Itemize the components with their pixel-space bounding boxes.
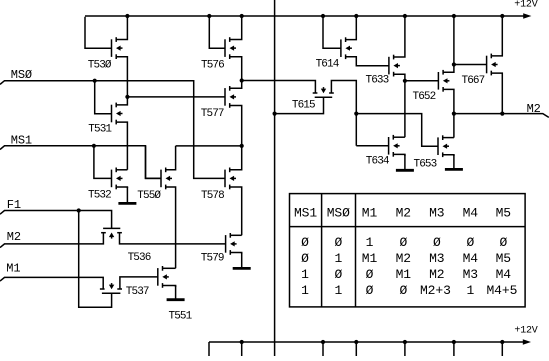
- node T577.s/T550.d/T578.d: [240, 144, 244, 148]
- wire T530 source down to node: [116, 57, 127, 97]
- transistor T536: [101, 228, 122, 238]
- transistor T577: [225, 86, 236, 108]
- junction on +12V rail x=127.4: [125, 14, 129, 18]
- svg-text:Ø: Ø: [399, 283, 407, 298]
- svg-text:T53Ø: T53Ø: [88, 59, 112, 71]
- svg-text:M1: M1: [362, 205, 378, 220]
- transistor T652: [438, 70, 449, 92]
- svg-text:Ø: Ø: [334, 267, 342, 282]
- transistor T550: [161, 168, 172, 190]
- transistor T531: [112, 103, 123, 125]
- svg-text:Ø: Ø: [301, 235, 309, 250]
- node T633.s/T652.g/T634.d: [403, 79, 407, 83]
- svg-text:Ø: Ø: [499, 235, 507, 250]
- svg-text:Ø: Ø: [366, 283, 374, 298]
- wire T532 source arm: [116, 187, 127, 188]
- transistor T532: [112, 168, 123, 190]
- wire T532 gate to MS1: [94, 146, 112, 179]
- svg-text:M3: M3: [429, 205, 444, 220]
- wire stub below bottom rail x=241.7: [241, 342, 243, 356]
- wire stub below bottom rail x=356.3: [355, 342, 357, 356]
- wire T615 gate to bus: [275, 97, 324, 113]
- svg-text:T537: T537: [126, 286, 149, 298]
- wire node to T652 gate: [405, 80, 439, 82]
- svg-text:T634: T634: [366, 156, 390, 168]
- svg-text:MSØ: MSØ: [11, 68, 32, 82]
- transistor T634: [389, 135, 400, 157]
- junction on +12V rail x=323.0: [321, 14, 325, 18]
- svg-text:M2: M2: [396, 251, 411, 266]
- wire stub below bottom rail x=323.0: [322, 342, 324, 356]
- wire T576 gate to +12V: [209, 16, 225, 48]
- node F1/T537 gate: [77, 208, 81, 212]
- svg-text:1: 1: [366, 235, 374, 250]
- svg-text:M1: M1: [362, 251, 378, 266]
- wire T653 source arm: [443, 155, 454, 156]
- junction on bottom rail x=241.7: [240, 340, 244, 344]
- wire M2 input to T536 left: [0, 233, 103, 248]
- svg-text:M2: M2: [527, 102, 541, 116]
- svg-text:Ø: Ø: [334, 235, 342, 250]
- table data row 2: [301, 251, 511, 266]
- wire T530 gate to +12V: [85, 17, 112, 49]
- transistor T578: [225, 168, 236, 190]
- wire node T577/T550/T578: [176, 145, 242, 147]
- junction on +12V rail x=356.3: [354, 14, 358, 18]
- wire T576 source to node: [230, 57, 242, 81]
- junction on bottom rail x=404.9: [403, 340, 407, 344]
- wire T577 source down to node: [230, 106, 242, 146]
- svg-text:T579: T579: [201, 253, 224, 265]
- svg-text:F1: F1: [7, 198, 21, 212]
- node bus/T615 gate: [273, 112, 277, 116]
- transistor T667: [487, 54, 498, 76]
- node T530.s/T531.d: [125, 95, 129, 99]
- wire M1 to T537 left: [0, 277, 103, 289]
- svg-text:T633: T633: [366, 75, 389, 87]
- transistor T615: [313, 87, 334, 97]
- wire T576 drain to +12V: [230, 16, 242, 40]
- svg-text:T667: T667: [462, 75, 485, 87]
- wire T634 gate from T615 column: [356, 145, 388, 147]
- svg-text:Ø: Ø: [433, 235, 441, 250]
- wire node to T615 left: [242, 81, 316, 94]
- junction on +12V rail x=453.9: [452, 14, 456, 18]
- svg-text:T577: T577: [201, 108, 224, 120]
- transistor T579: [226, 233, 237, 255]
- wire T579 drain arm: [230, 234, 241, 236]
- truth table: [290, 194, 526, 307]
- svg-text:1: 1: [334, 251, 342, 266]
- wire T577 drain to node: [230, 81, 242, 89]
- wire T633 source to node: [394, 74, 405, 81]
- transistor T614: [341, 37, 352, 59]
- svg-text:1: 1: [301, 267, 309, 282]
- +12V rail (bottom): [209, 339, 531, 344]
- wire T550 gate to MS1: [146, 146, 162, 179]
- wire T667 gate to T652 drain node: [454, 64, 487, 66]
- svg-text:T536: T536: [128, 252, 151, 264]
- wire T532 drain arm: [116, 169, 127, 171]
- junction on bottom rail x=502.3: [500, 340, 504, 344]
- wire node down to T634 drain: [404, 81, 406, 137]
- vertical bus wire: [274, 0, 276, 356]
- transistor T551: [158, 266, 169, 288]
- svg-text:1: 1: [334, 283, 342, 298]
- wire M2 output: [454, 114, 549, 118]
- svg-text:M1: M1: [6, 262, 20, 276]
- svg-text:Ø: Ø: [301, 251, 309, 266]
- junction on +12V rail x=404.9: [403, 14, 407, 18]
- node T576.s/T577.d/T615: [240, 78, 244, 82]
- svg-text:1: 1: [466, 283, 474, 298]
- ground under T653: [445, 155, 463, 170]
- ground under T579: [233, 253, 251, 269]
- transistor T530: [112, 37, 123, 59]
- svg-text:M2: M2: [429, 267, 444, 282]
- wire T531 drain to node: [116, 97, 127, 105]
- svg-text:M2+3: M2+3: [420, 283, 451, 298]
- table data row 3: [301, 267, 511, 282]
- wire T652 drain to +12V: [443, 16, 454, 72]
- wire T634 source arm: [393, 154, 405, 156]
- wire stub below bottom rail x=453.9: [453, 342, 455, 356]
- transistor T537: [100, 283, 122, 293]
- wire T551 source arm: [163, 286, 176, 288]
- svg-text:M4: M4: [463, 205, 479, 220]
- table data row 4: [301, 283, 517, 298]
- node T652.s/M2/T653.d: [452, 112, 456, 116]
- svg-text:M3: M3: [429, 251, 444, 266]
- svg-text:M2: M2: [7, 230, 21, 244]
- svg-text:+12V: +12V: [514, 0, 537, 10]
- svg-text:T652: T652: [413, 91, 436, 103]
- junction on +12V rail x=209.3: [207, 14, 211, 18]
- wire T536 right to T579 gate: [120, 233, 226, 244]
- transistor T576: [225, 37, 236, 59]
- wire T653 gate from node: [356, 114, 438, 147]
- wire T615 right to T634 column: [331, 81, 356, 146]
- wire node to T577 gate: [127, 96, 225, 98]
- +12V rail (top): [85, 13, 531, 18]
- wire T578 source to T579 drain: [230, 187, 242, 235]
- svg-text:MS1: MS1: [11, 133, 32, 147]
- svg-text:Ø: Ø: [466, 235, 474, 250]
- wire T652 source to M2 node and T653 drain: [443, 89, 454, 137]
- wire F1 branch to T537 gate: [79, 211, 112, 308]
- junction on bottom rail x=453.9: [452, 340, 456, 344]
- svg-text:T532: T532: [88, 190, 111, 202]
- wire stub below bottom rail x=404.9: [404, 342, 406, 356]
- svg-text:M5: M5: [496, 251, 511, 266]
- node T652.d/T667.g: [452, 62, 456, 66]
- svg-text:M5: M5: [496, 205, 511, 220]
- svg-text:T531: T531: [88, 124, 112, 136]
- ground under T532: [118, 187, 136, 203]
- junction on bottom rail x=323.0: [321, 340, 325, 344]
- node T667.s/M2: [500, 112, 504, 116]
- wire MS0 input to T578 gate: [0, 81, 225, 179]
- svg-text:MSØ: MSØ: [327, 205, 350, 220]
- svg-text:+12V: +12V: [514, 326, 537, 337]
- ground under T551: [167, 286, 185, 300]
- wire stub below bottom rail x=502.3: [501, 342, 503, 356]
- transistor T653: [438, 135, 449, 157]
- svg-text:T615: T615: [292, 99, 315, 111]
- node MS0/T531 gate: [93, 79, 97, 83]
- wire MS1 input to T550 gate: [0, 146, 161, 179]
- node MS1/T532 gate: [92, 144, 96, 148]
- wire T537 right to T551 gate: [120, 277, 158, 289]
- wire T530 drain to +12V: [116, 16, 127, 40]
- svg-text:T578: T578: [201, 190, 224, 202]
- svg-text:T55Ø: T55Ø: [137, 190, 161, 202]
- svg-text:Ø: Ø: [366, 267, 374, 282]
- svg-text:1: 1: [301, 283, 309, 298]
- wire F1 to T536 gate: [0, 211, 112, 229]
- svg-text:MS1: MS1: [294, 205, 317, 220]
- transistor T633: [389, 55, 400, 77]
- table header row: [294, 205, 511, 220]
- svg-text:Ø: Ø: [399, 235, 407, 250]
- wire stub below bottom rail x=209: [208, 342, 210, 356]
- svg-text:M2: M2: [396, 205, 411, 220]
- table data row 1: [301, 235, 507, 250]
- wire T633 drain to +12V: [394, 16, 405, 57]
- wire T614 source to T633 gate: [346, 57, 389, 66]
- wire T578 drain to node: [230, 146, 242, 170]
- wire T667 source to M2 wire: [491, 73, 502, 114]
- junction on +12V rail x=241.7: [240, 14, 244, 18]
- wire T634 drain arm: [393, 136, 405, 138]
- svg-text:T614: T614: [316, 58, 340, 70]
- svg-text:T653: T653: [414, 158, 437, 170]
- wire T614 gate to +12V: [323, 16, 341, 48]
- wire T550 source to T551 drain: [166, 187, 176, 268]
- svg-text:M4+5: M4+5: [486, 283, 517, 298]
- junction on +12V rail x=502.3: [500, 14, 504, 18]
- wire T531 gate to MS0: [95, 81, 112, 114]
- svg-text:M1: M1: [396, 267, 412, 282]
- wire T614 drain to +12V: [346, 16, 357, 40]
- wire T550 drain to node: [166, 146, 176, 170]
- wire T667 drain to +12V: [491, 16, 502, 56]
- junction on bottom rail x=356.3: [354, 340, 358, 344]
- svg-text:M4: M4: [496, 267, 512, 282]
- ground under T634: [396, 154, 414, 170]
- svg-text:M3: M3: [463, 267, 478, 282]
- wire T579 source arm: [230, 253, 241, 255]
- wire T531 source to T532 drain: [116, 122, 127, 170]
- node T615 line/T653 gate: [354, 112, 358, 116]
- svg-text:T551: T551: [169, 310, 193, 322]
- wire T551 drain arm: [163, 267, 176, 269]
- svg-text:T576: T576: [201, 59, 224, 71]
- wire T653 drain arm: [443, 137, 454, 139]
- svg-text:M4: M4: [463, 251, 479, 266]
